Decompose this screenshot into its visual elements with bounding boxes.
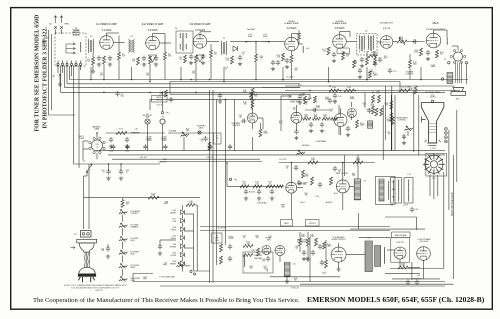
ground g11 xyxy=(332,59,336,63)
junction xyxy=(291,162,293,164)
wire drop v2 xyxy=(149,64,151,82)
wire contrast vert xyxy=(251,92,253,110)
svg-text:T-7: T-7 xyxy=(444,59,446,61)
svg-text:T-4: T-4 xyxy=(175,28,178,30)
wire xyxy=(349,32,351,38)
wire tuner drop b xyxy=(78,65,80,164)
high voltage box xyxy=(392,232,411,238)
resistor R-51 xyxy=(399,89,410,92)
ground g10 xyxy=(285,65,289,69)
junction xyxy=(120,163,122,165)
resistor R-40b xyxy=(250,92,253,100)
resistor R-7 xyxy=(184,55,187,63)
wire xyxy=(374,51,376,57)
wire vert 383 xyxy=(382,105,384,160)
svg-text:R-4100: R-4100 xyxy=(132,59,135,63)
capacitor C-11 xyxy=(201,54,205,60)
wire top link xyxy=(262,87,300,89)
resistor R-61 xyxy=(353,161,363,164)
capacitor C-63b xyxy=(318,244,322,250)
wire stage drop xyxy=(90,67,92,80)
picture tube grids xyxy=(429,124,436,133)
svg-text:C-60470: C-60470 xyxy=(262,259,266,263)
wire v2 out xyxy=(159,42,171,44)
terminal test point xyxy=(161,112,163,114)
svg-text:R-78: R-78 xyxy=(173,227,176,229)
potentiometer R-71 xyxy=(119,223,127,228)
svg-text:OUTPUT: OUTPUT xyxy=(309,223,316,225)
ground g13 xyxy=(426,57,430,61)
svg-text:CONTROL: CONTROL xyxy=(131,213,139,215)
resistor R-49 xyxy=(390,113,393,121)
capacitor C-36 xyxy=(294,129,298,135)
ground g20 xyxy=(119,177,123,181)
coil T-4 pri a xyxy=(179,33,181,38)
wire tube right xyxy=(258,117,264,119)
resistor R-11 xyxy=(231,56,234,64)
svg-text:T-6: T-6 xyxy=(365,31,368,33)
resistor R-87 xyxy=(257,248,260,256)
svg-text:DEFL: DEFL xyxy=(215,238,219,240)
resistor R-15 xyxy=(290,55,293,63)
wire xyxy=(194,270,210,272)
coil L-10 xyxy=(246,40,253,42)
resistor R-14 xyxy=(282,53,285,61)
junction xyxy=(209,79,211,81)
transformer T-6 sec xyxy=(368,35,373,52)
wire line 237 xyxy=(359,237,390,239)
resistor R-1 xyxy=(92,57,95,65)
svg-text:T-3: T-3 xyxy=(130,36,133,38)
coil T-10 sec xyxy=(388,181,390,200)
wire drop t2 xyxy=(62,65,64,73)
terminal focus tp xyxy=(229,178,231,180)
svg-text:R-508.2K: R-508.2K xyxy=(387,119,390,123)
wire loop top xyxy=(281,95,291,97)
terminal speaker jack xyxy=(441,78,443,80)
svg-text:BRIGHT: BRIGHT xyxy=(185,266,191,268)
wire xyxy=(210,44,212,50)
resistor R-54 xyxy=(266,185,275,188)
coil T-4 pri b xyxy=(179,44,181,49)
socket ballast tube V-15 xyxy=(89,137,106,154)
wire xyxy=(118,36,120,46)
wire xyxy=(432,150,445,152)
wire crt lead b xyxy=(448,130,450,210)
resistor R-59 xyxy=(148,196,159,199)
transformer T-6 pri xyxy=(359,35,364,52)
terminal pt a xyxy=(190,270,192,272)
plug cord xyxy=(85,252,90,267)
coil L-21 xyxy=(244,254,246,267)
diode detector xyxy=(233,46,238,51)
svg-text:R-82: R-82 xyxy=(173,261,176,263)
coil yoke horiz xyxy=(398,180,400,202)
ground g15 xyxy=(333,100,337,104)
wire stage drop xyxy=(131,67,133,80)
wire tap a xyxy=(185,213,194,215)
ground g33 xyxy=(298,101,302,105)
svg-text:BLU: BLU xyxy=(392,182,395,184)
wire xyxy=(108,164,110,171)
terminal phono jack xyxy=(198,131,201,134)
wire v2 top xyxy=(152,34,154,37)
svg-text:C-62.005: C-62.005 xyxy=(295,246,298,250)
wire socket down c xyxy=(437,175,439,196)
wire socket bottom xyxy=(96,153,98,159)
wire tap b xyxy=(185,230,194,232)
wire xyxy=(399,259,401,268)
diode tap R-78 xyxy=(181,227,185,231)
wire tuner pin top 2 xyxy=(62,61,64,64)
resistor R-40 xyxy=(303,117,311,120)
ground g24b xyxy=(346,133,350,137)
resistor R-29 xyxy=(165,90,168,97)
wire drop v1 xyxy=(103,64,105,80)
wire chain xyxy=(122,269,124,276)
wire bus 94 xyxy=(170,93,310,95)
tuner stub xyxy=(65,44,67,53)
wire vol down xyxy=(183,137,185,151)
plug strain arrow xyxy=(71,246,76,248)
wire xyxy=(286,276,288,280)
resistor R-64 xyxy=(330,177,333,185)
terminal crt pin 4 xyxy=(444,140,447,143)
wire bus 87 xyxy=(65,87,300,89)
wire v7 top xyxy=(433,30,435,33)
resistor R-41b xyxy=(322,117,330,120)
resistor R-2 xyxy=(103,56,106,64)
resistor R-46b xyxy=(378,95,381,103)
resistor R-26 xyxy=(353,60,356,68)
svg-text:H HOLD: H HOLD xyxy=(170,238,177,240)
resistor R-39 xyxy=(259,129,262,137)
wire lv down xyxy=(423,260,425,279)
wire hv lead xyxy=(453,155,455,279)
wire vert v1 xyxy=(385,86,387,140)
wire xyxy=(252,137,254,151)
coil T-4 sec a xyxy=(185,33,187,38)
antenna terminals xyxy=(54,16,62,24)
ground g14 xyxy=(218,100,222,104)
junction xyxy=(329,85,331,87)
junction xyxy=(162,92,164,94)
resistor R-8 xyxy=(195,55,198,63)
junction xyxy=(223,81,225,83)
resistor R-21 xyxy=(374,57,377,65)
ground g8 xyxy=(238,62,242,66)
wire loop left xyxy=(280,96,282,131)
wire hv line 273 xyxy=(385,273,420,275)
capacitor C-63 xyxy=(406,280,410,286)
coil T-4 sec b xyxy=(185,44,187,49)
svg-text:R-48120K: R-48120K xyxy=(370,104,374,108)
svg-text:R-73 HORIZ: R-73 HORIZ xyxy=(131,251,140,253)
svg-text:R-292.2K: R-292.2K xyxy=(371,52,374,56)
resistor R-85 xyxy=(243,254,253,257)
wire v5 to t6 xyxy=(346,41,356,43)
speaker xyxy=(451,88,466,96)
svg-text:R-7100: R-7100 xyxy=(179,57,182,61)
coil L-11 xyxy=(262,40,269,42)
wire xyxy=(59,77,61,83)
potentiometer R-77b xyxy=(119,277,127,282)
wire drop t1 xyxy=(57,65,59,73)
wire fuse drop xyxy=(162,124,164,151)
wire socket down a xyxy=(429,175,431,196)
svg-text:BRIGHT: BRIGHT xyxy=(170,263,176,265)
wire xyxy=(309,94,311,99)
junction xyxy=(108,163,110,165)
wire tuner pin top 3 xyxy=(66,61,68,64)
coil flyback tertiary xyxy=(383,247,385,264)
wire filament line xyxy=(106,132,166,134)
wire xyxy=(416,217,418,230)
capacitor C-44 xyxy=(297,180,301,186)
terminal funnel top xyxy=(431,100,433,102)
wire sync bus 2 xyxy=(285,85,455,87)
resistor R-48 xyxy=(390,101,393,109)
wire bus 226 xyxy=(200,226,390,228)
junction xyxy=(354,90,356,92)
wire corner 64 xyxy=(64,66,66,88)
ground g19 xyxy=(106,177,110,181)
wire chain2 seg xyxy=(182,257,184,261)
svg-text:P-2: P-2 xyxy=(433,178,436,180)
resistor R-88b xyxy=(220,244,223,252)
svg-text:V-106AL5: V-106AL5 xyxy=(143,276,147,280)
wire xyxy=(298,40,300,44)
shield triangle V-3 xyxy=(196,55,204,62)
svg-text:H DRIVE: H DRIVE xyxy=(170,246,176,248)
svg-text:1 2 3 4: 1 2 3 4 xyxy=(430,148,436,150)
svg-text:L-21 HORIZ: L-21 HORIZ xyxy=(254,255,262,257)
wire det line a xyxy=(230,41,246,43)
junction xyxy=(80,65,82,67)
wire stage drop xyxy=(180,67,182,80)
svg-text:C-54 .047: C-54 .047 xyxy=(207,157,214,159)
junction xyxy=(90,79,92,81)
wire xyxy=(262,118,264,129)
wire vert 234 xyxy=(233,99,235,150)
svg-text:R-68 470: R-68 470 xyxy=(326,202,332,204)
svg-text:C-31.047: C-31.047 xyxy=(239,115,243,119)
wire vert osc down xyxy=(290,193,292,219)
resistor R-10 xyxy=(255,54,258,62)
wire bus 83 xyxy=(67,83,300,85)
wire line cord a xyxy=(83,176,85,229)
resistor R-29b xyxy=(369,55,378,58)
wire xyxy=(84,175,87,177)
wire chain2 seg xyxy=(182,240,184,244)
wire xyxy=(92,53,94,57)
wire xyxy=(299,232,301,238)
wire xyxy=(160,239,176,241)
wire xyxy=(399,82,401,91)
vert output transformer box xyxy=(376,176,396,204)
wire xyxy=(351,102,353,107)
wire vert b+ line xyxy=(279,162,375,164)
diode tap R-79 xyxy=(181,236,185,240)
capacitor C-45 xyxy=(318,182,322,188)
resistor R-52 xyxy=(240,185,249,188)
wire focus feed xyxy=(226,163,228,186)
svg-text:R-81: R-81 xyxy=(173,253,176,255)
capacitor C-7 xyxy=(142,56,146,62)
svg-text:L-18: L-18 xyxy=(390,205,393,207)
wire to vol xyxy=(393,41,397,43)
speaker wires xyxy=(456,63,462,84)
capacitor C-20 xyxy=(360,57,364,63)
junction xyxy=(62,65,64,67)
resistor R-63 xyxy=(311,177,314,185)
diode tap R-77 xyxy=(181,219,185,223)
wire xyxy=(325,240,327,260)
capacitor C-37b xyxy=(328,98,332,104)
wire xyxy=(159,240,161,246)
wire bottom right bus xyxy=(300,283,454,285)
capacitor C-57 xyxy=(302,250,306,256)
junction xyxy=(366,79,368,81)
junction xyxy=(75,65,77,67)
resistor R-41 xyxy=(313,117,321,120)
resistor R-9 xyxy=(210,50,213,58)
resistor R-31 xyxy=(208,142,211,150)
wire bus 230 xyxy=(200,229,390,231)
wire xyxy=(291,63,293,80)
wire xyxy=(292,33,300,35)
diode tap R-82 xyxy=(181,261,185,265)
wire bright 1 xyxy=(390,95,392,151)
plug cap xyxy=(79,267,95,274)
svg-text:V-10 6BQ6GTHORIZ OUTPUT: V-10 6BQ6GTHORIZ OUTPUT xyxy=(332,237,347,241)
transformer T-12 flyback secondary xyxy=(375,246,381,267)
svg-text:2nd VIDEO IF AMP: 2nd VIDEO IF AMP xyxy=(142,23,164,26)
shield triangle V-2 xyxy=(149,55,157,62)
wire line horiz xyxy=(74,163,161,165)
wire tp drop xyxy=(162,92,164,111)
wire xyxy=(118,60,120,80)
phono jack cross xyxy=(198,131,200,133)
resistor R-86 xyxy=(325,260,328,268)
wire xyxy=(299,246,301,252)
wire chain xyxy=(122,215,124,222)
svg-text:TP-1: TP-1 xyxy=(166,113,170,115)
wire det line c xyxy=(269,41,285,43)
svg-text:C-27: C-27 xyxy=(393,71,397,73)
svg-text:SOUND DET: SOUND DET xyxy=(380,22,394,24)
high voltage cage box xyxy=(391,238,410,262)
wire vert 365 xyxy=(364,93,366,108)
tube V-11B horiz osc xyxy=(275,246,285,256)
wire tuner pin top 5 xyxy=(75,61,77,64)
wire bright 4 xyxy=(418,95,420,155)
capacitor C-19b xyxy=(333,93,337,99)
ground g21 xyxy=(309,129,313,133)
wire xyxy=(164,45,166,52)
wire xyxy=(195,204,197,206)
junction xyxy=(96,132,98,134)
diode tap R-80 xyxy=(181,244,185,248)
svg-text:1st VIDEO IF AMP: 1st VIDEO IF AMP xyxy=(96,23,117,26)
focus coil box xyxy=(404,178,413,204)
tube V-14 5U4G xyxy=(417,247,431,261)
ground g31 xyxy=(285,280,289,284)
wire focus line xyxy=(227,185,283,187)
svg-text:HEIGHT: HEIGHT xyxy=(170,212,176,214)
wire xyxy=(338,243,340,247)
svg-text:R-42: R-42 xyxy=(332,87,336,89)
tube V-8B sync sep xyxy=(291,112,302,123)
wire xyxy=(340,127,342,136)
wire v1 out xyxy=(113,42,124,44)
capacitor C-59 xyxy=(320,260,324,266)
resistor R-37 xyxy=(251,88,254,96)
capacitor C-46 xyxy=(294,165,298,171)
wire v4 out xyxy=(298,43,303,45)
svg-text:R-65470K: R-65470K xyxy=(305,174,309,178)
capacitor C-39 xyxy=(410,207,414,213)
wire xyxy=(338,262,340,268)
svg-text:T-2: T-2 xyxy=(90,36,93,38)
wire v3 out xyxy=(207,40,219,42)
svg-text:FOCUS: FOCUS xyxy=(171,255,176,257)
svg-text:V-7 AUDIO OUTPUT: V-7 AUDIO OUTPUT xyxy=(426,28,446,31)
wire xyxy=(252,123,254,129)
svg-text:V-4 6AU6: V-4 6AU6 xyxy=(287,27,298,30)
boxed label vert xyxy=(281,220,293,227)
capacitor C-36c xyxy=(367,108,371,114)
wire chain xyxy=(122,228,124,235)
resistor R-48c xyxy=(375,108,378,116)
potentiometer R-81 bright xyxy=(177,263,185,268)
wire bracket xyxy=(133,273,153,275)
svg-text:R-74: R-74 xyxy=(119,129,123,131)
fuse F-1 xyxy=(160,119,165,124)
svg-text:R-56: R-56 xyxy=(163,159,167,161)
svg-text:V-15: V-15 xyxy=(95,144,98,146)
capacitor C-15 xyxy=(285,58,289,64)
wire vertical c xyxy=(216,99,218,265)
resistor R-74 xyxy=(116,132,127,135)
wire main bus 3 xyxy=(112,158,260,160)
terminal crt pin 2 xyxy=(444,132,447,135)
tube V-13 1X2 xyxy=(394,247,406,259)
wire xyxy=(122,198,124,200)
wire xyxy=(43,38,45,41)
svg-text:EMERSON MODELS 650F, 654F, 655: EMERSON MODELS 650F, 654F, 655F (Ch. 120… xyxy=(307,295,485,304)
ground g34 xyxy=(306,258,310,262)
transformer T-10 winding xyxy=(379,179,384,201)
wire socket stub c xyxy=(82,141,84,160)
tuner T-1 dashed box xyxy=(55,33,86,66)
svg-text:R-76: R-76 xyxy=(173,210,176,212)
svg-text:3rd VIDEO IF AMP: 3rd VIDEO IF AMP xyxy=(190,23,211,26)
transformer T-7 output xyxy=(447,73,453,84)
wire vert 358 xyxy=(358,213,360,229)
wire v1 top xyxy=(106,33,108,36)
svg-text:T-9: T-9 xyxy=(364,181,366,183)
svg-text:C-53 .047: C-53 .047 xyxy=(140,157,147,159)
svg-text:TP-2: TP-2 xyxy=(234,180,237,182)
wire xyxy=(407,131,409,136)
resistor R-17 xyxy=(327,47,330,55)
capacitor C-31 xyxy=(241,119,247,123)
wire xyxy=(307,232,309,238)
junction xyxy=(245,41,247,43)
junction xyxy=(255,79,257,81)
svg-text:L-20: L-20 xyxy=(417,275,420,277)
